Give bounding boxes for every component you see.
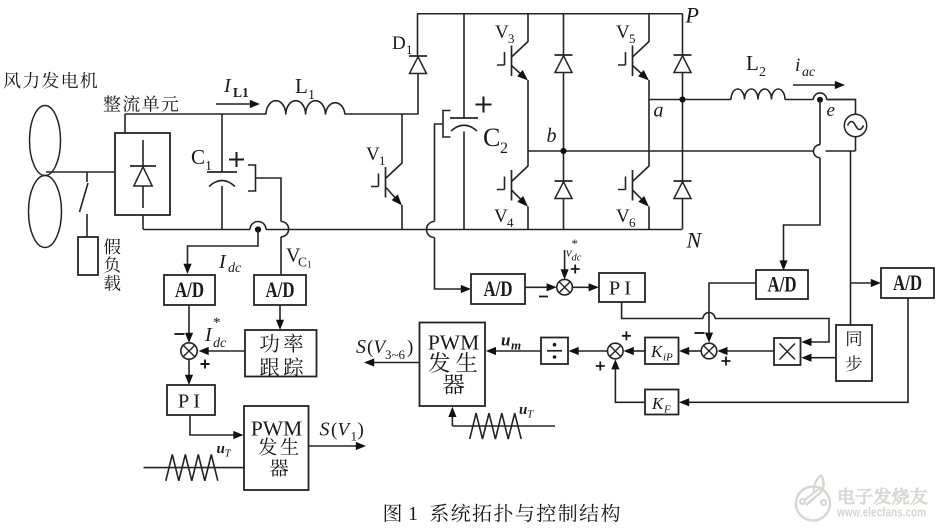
svg-text:a: a <box>654 100 664 122</box>
wire iac sense down <box>779 100 820 271</box>
arrow vdc ref into sum4 <box>561 250 569 279</box>
label um <box>501 331 521 353</box>
svg-text:C: C <box>483 123 500 152</box>
svg-text:iP: iP <box>663 352 673 364</box>
svg-text:2: 2 <box>500 140 508 157</box>
svg-text:A/D: A/D <box>484 276 513 301</box>
svg-text:1: 1 <box>379 153 386 168</box>
wire VC1 sense <box>256 178 282 275</box>
svg-text:4: 4 <box>507 215 514 230</box>
wire branch to A/D4 <box>851 279 882 287</box>
svg-text:A/D: A/D <box>175 277 204 302</box>
wire e sense down to sync <box>850 151 852 325</box>
svg-text:I: I <box>218 251 227 273</box>
svg-text:6: 6 <box>629 215 636 230</box>
label 风力发电机 <box>4 72 98 89</box>
caption 图1 <box>385 503 620 525</box>
node a junction <box>679 96 685 102</box>
svg-text:(: ( <box>331 420 337 441</box>
arrow S(V3-6) output <box>364 358 420 366</box>
wire AC source bottom <box>855 137 857 151</box>
svg-text:1: 1 <box>408 503 418 525</box>
wire to AC source <box>827 100 856 115</box>
wire DC bus top <box>125 113 417 115</box>
hop PI2 line over sum2 input <box>703 313 715 319</box>
wire PI1 to PWM1 <box>190 415 244 439</box>
label plus sum3 <box>201 360 210 369</box>
label V4 <box>494 206 514 230</box>
svg-text:L: L <box>746 51 759 75</box>
wire vdc sense down <box>435 124 472 293</box>
label minus sum3 <box>175 333 185 335</box>
svg-text:dc: dc <box>228 261 242 276</box>
rectifier diode <box>130 140 156 208</box>
label e <box>827 100 835 121</box>
hop iac sense over b line <box>814 145 820 158</box>
svg-text:PI: PI <box>609 278 635 300</box>
label IL1 <box>223 75 249 100</box>
svg-text:1: 1 <box>406 42 413 57</box>
wire rectifier top lead <box>124 114 126 133</box>
svg-text:dc: dc <box>213 336 227 351</box>
wire KiP to sum1 <box>624 347 645 355</box>
label C1 <box>191 145 212 174</box>
label 整流单元 <box>104 95 179 112</box>
dummy load 假负载 <box>78 237 98 275</box>
freewheel diode leg 2 <box>674 14 692 229</box>
svg-text:ac: ac <box>802 65 816 80</box>
svg-text:C: C <box>191 145 205 169</box>
svg-text:I: I <box>204 324 213 346</box>
label minus sum2 <box>695 332 705 334</box>
arrow S(V1) output <box>309 442 367 450</box>
summing junction sum2 <box>701 343 717 359</box>
label minus sum4 <box>539 296 548 298</box>
label V1 <box>366 144 386 168</box>
svg-text:D: D <box>392 33 406 54</box>
PI controller 1 <box>167 385 215 415</box>
svg-text:A/D: A/D <box>266 277 295 302</box>
watermark url <box>836 506 926 520</box>
switch S1 <box>80 172 89 237</box>
A/D converter 1 <box>164 275 215 305</box>
wire P rail <box>417 13 683 15</box>
PI controller 2 <box>599 273 645 302</box>
wire generator to rectifier <box>46 171 115 173</box>
wire A/D3 to sum4 <box>525 283 557 291</box>
watermark logo <box>796 475 830 521</box>
A/D converter 2 <box>254 275 306 305</box>
sync block 同步 <box>836 325 872 381</box>
wire multiplier to sum2 <box>717 347 774 355</box>
svg-text:K: K <box>650 342 664 361</box>
summing junction sum3 <box>181 343 197 359</box>
svg-text:*: * <box>213 315 221 331</box>
svg-text:2: 2 <box>759 65 766 80</box>
label 假负载 <box>104 238 120 290</box>
svg-text:(: ( <box>367 337 373 358</box>
A/D converter 5 (e) <box>881 268 934 298</box>
svg-text:1: 1 <box>205 159 212 174</box>
svg-text:P: P <box>685 3 699 28</box>
wire sum4 to PI2 <box>572 283 598 291</box>
svg-text:V: V <box>495 22 509 43</box>
transistor V1 IGBT <box>371 114 402 229</box>
svg-text:V: V <box>616 22 630 43</box>
label uT right <box>519 402 534 421</box>
current sensor hop on rail <box>250 222 266 230</box>
wire node a line <box>649 99 856 101</box>
PWM generator 1 box <box>244 406 309 490</box>
svg-text:m: m <box>511 338 521 353</box>
PWM generator 2 box <box>420 323 486 407</box>
label plus sum1 top <box>622 331 631 340</box>
wind generator blades <box>29 106 62 248</box>
label plus sum1 left <box>596 362 605 371</box>
wire DC bus bottom rail <box>143 229 683 231</box>
voltage probe bracket C1 <box>248 165 256 191</box>
transistor V6 IGBT <box>618 99 649 229</box>
node Idc tap <box>255 226 261 232</box>
node b junction <box>560 148 566 154</box>
label VC1 <box>286 245 312 271</box>
svg-text:F: F <box>663 404 671 416</box>
label iac <box>795 55 816 80</box>
label S(V1) <box>320 419 364 444</box>
svg-text:u: u <box>501 331 510 350</box>
label S(V3-6) <box>356 336 413 362</box>
inductor L1 <box>266 101 345 115</box>
wire node b line <box>528 150 856 152</box>
svg-text:e: e <box>827 100 835 121</box>
label L2 <box>746 51 766 80</box>
svg-text:L1: L1 <box>233 85 249 100</box>
wire sum3 to PI1 <box>185 359 193 385</box>
svg-text:i: i <box>795 55 800 76</box>
wire power tracking to sum3 <box>199 347 246 355</box>
svg-text:5: 5 <box>629 31 636 46</box>
wire Idc sense to A/D <box>183 230 258 275</box>
svg-text:N: N <box>686 228 703 253</box>
wire A/D5 to KF <box>679 298 908 406</box>
wire sum1 to divider <box>569 347 608 355</box>
multiplier block <box>774 338 801 365</box>
label vdc ref <box>566 236 582 264</box>
summing junction sum1 <box>608 343 624 359</box>
hop VC1 over rail <box>281 222 289 237</box>
wire sawtooth to PWM2 <box>448 407 456 426</box>
arrow iac <box>793 81 845 89</box>
hop vdc over rail <box>427 222 435 238</box>
svg-text:T: T <box>527 409 534 421</box>
svg-text:A/D: A/D <box>768 272 797 297</box>
svg-text:PI: PI <box>178 391 204 413</box>
node e junction <box>817 97 823 103</box>
AC source e <box>844 114 866 136</box>
label C2 <box>483 123 508 157</box>
diode D1 <box>409 14 427 115</box>
svg-text:*: * <box>572 236 579 251</box>
wire A/D2 to power tracking <box>276 305 284 330</box>
sawtooth carrier uT right <box>452 413 555 439</box>
rectifier unit box <box>115 133 170 215</box>
svg-text:V: V <box>616 206 630 227</box>
label N <box>686 228 703 253</box>
wire PI2 output to multiplier <box>622 302 829 346</box>
wire rectifier bottom lead <box>142 215 144 229</box>
svg-text:3~6: 3~6 <box>385 347 406 362</box>
label b <box>547 125 557 147</box>
label D1 <box>392 33 413 57</box>
svg-text:3: 3 <box>508 31 515 46</box>
gain block KF <box>645 390 679 416</box>
capacitor C1 <box>207 114 237 229</box>
label Idc ref <box>204 315 227 351</box>
label uT left <box>217 441 232 460</box>
wire sync to multiplier <box>801 354 836 362</box>
svg-text:www.elecfans.com: www.elecfans.com <box>836 506 926 520</box>
svg-text:A/D: A/D <box>893 270 922 295</box>
svg-text:S: S <box>320 419 330 441</box>
svg-text:1: 1 <box>308 88 315 103</box>
svg-text:V: V <box>494 206 508 227</box>
label plus sum4 <box>571 265 580 274</box>
label V5 <box>616 22 636 46</box>
svg-text:b: b <box>547 125 557 147</box>
svg-text:C: C <box>298 255 307 270</box>
svg-text:I: I <box>223 75 232 97</box>
arrow IL1 <box>216 100 260 108</box>
svg-text:L: L <box>295 74 308 98</box>
wire KF to sum1 <box>611 359 645 402</box>
summing junction sum4 <box>557 279 573 295</box>
label a <box>654 100 664 122</box>
A/D converter 4 (iac) <box>756 270 808 299</box>
svg-text:PWM: PWM <box>251 417 302 441</box>
power tracking box 功率跟踪 <box>245 330 317 377</box>
label L1 <box>295 74 315 103</box>
sawtooth carrier uT left <box>144 455 245 481</box>
plus sign C1 <box>229 152 244 167</box>
svg-text:1: 1 <box>351 429 358 444</box>
svg-text:): ) <box>358 420 364 441</box>
gain block KiP <box>645 338 679 365</box>
transistor V4 IGBT <box>497 151 528 229</box>
transistor V3 IGBT <box>497 14 528 152</box>
wire A/D4 output to sum2 <box>705 283 756 343</box>
label V3 <box>495 22 515 46</box>
wire A/D1 to sum3 <box>185 305 193 343</box>
watermark text 电子发烧友 <box>839 488 927 505</box>
current sensor hop at e <box>813 93 826 100</box>
label plus sum2 <box>722 357 731 366</box>
svg-text:1: 1 <box>307 261 312 271</box>
inductor L2 <box>731 89 785 100</box>
svg-text:K: K <box>651 394 665 413</box>
label V6 <box>616 206 636 230</box>
transistor V5 IGBT <box>618 14 649 100</box>
wire divider to PWM2 <box>486 347 541 355</box>
voltage probe bracket C2 <box>443 111 451 138</box>
svg-text:): ) <box>407 337 413 358</box>
divider block <box>541 338 568 365</box>
label Idc <box>218 251 242 276</box>
svg-text:PWM: PWM <box>428 331 479 355</box>
svg-text:dc: dc <box>572 253 582 264</box>
A/D converter 3 <box>471 274 525 304</box>
svg-text:S: S <box>356 336 366 358</box>
svg-text:V: V <box>366 144 380 165</box>
label P <box>685 3 699 28</box>
wire sum2 to KiP <box>679 347 701 355</box>
capacitor C2 <box>450 14 478 230</box>
plus sign C2 <box>476 97 492 113</box>
freewheel diode leg 1 <box>555 14 573 229</box>
svg-text:T: T <box>225 448 232 460</box>
